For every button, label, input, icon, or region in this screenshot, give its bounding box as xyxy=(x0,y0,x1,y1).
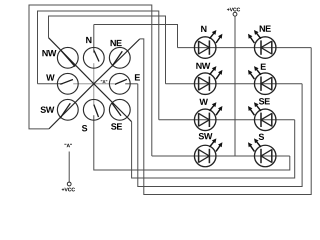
switch SE xyxy=(109,99,130,120)
node +VCC top terminal xyxy=(233,12,237,16)
wire: E switch out stub xyxy=(125,83,138,85)
label LED SW xyxy=(199,133,213,139)
wire: horizontal axis between W and E contacts xyxy=(73,83,114,85)
LED E xyxy=(248,66,276,94)
label switch SE xyxy=(111,123,122,129)
switch NE xyxy=(109,47,130,68)
wire: LED row 3 (W / SE) xyxy=(159,119,295,121)
switch W xyxy=(57,73,78,94)
label switch W xyxy=(46,74,54,80)
LED NE xyxy=(248,30,276,58)
wire: LED row 2 (NW / E) xyxy=(166,83,303,85)
label LED S xyxy=(259,134,264,140)
wire: SE diagonal from center through SE switch to exit xyxy=(94,84,132,122)
wire: SE switch drop, bottom loop, right riser to SE LED row xyxy=(132,120,295,178)
wire: +VCC rail vertical xyxy=(234,16,236,156)
wire: NW switch loop to NW LED row xyxy=(49,16,166,84)
LED NW xyxy=(194,66,222,94)
LED W xyxy=(194,102,222,130)
LED N xyxy=(194,30,222,58)
label LED W xyxy=(199,99,207,105)
node +VCC bottom terminal xyxy=(67,182,71,186)
label switch NW xyxy=(42,50,56,56)
label switch SW xyxy=(41,107,55,113)
label switch E xyxy=(135,74,140,80)
label LED N xyxy=(201,26,206,32)
switch S xyxy=(83,99,104,120)
label switch S xyxy=(82,125,87,131)
LED SW xyxy=(194,138,222,166)
wire: S switch drop to bottom loop and riser to S LED row xyxy=(94,115,290,170)
wire: N switch top stub from loop xyxy=(93,25,95,53)
wire: SW switch loop (outer top) to SW LED row xyxy=(29,5,152,156)
wire: E switch drop, bottom loop, right riser to E LED row xyxy=(138,84,302,187)
switch E xyxy=(109,73,130,94)
label LED E xyxy=(261,64,266,70)
label LED NE xyxy=(260,26,271,32)
label +VCC bottom xyxy=(62,188,75,192)
wire: LED row 4 (SW / S) xyxy=(152,155,290,157)
wire: vertical axis between N and S contacts xyxy=(93,63,95,104)
wire: node A to bottom +VCC terminal xyxy=(68,152,70,183)
label switch N xyxy=(86,37,91,43)
switch SW xyxy=(57,99,78,120)
wire: SW diagonal from center through SW switch to exit xyxy=(49,84,94,129)
switch NW xyxy=(57,47,78,68)
switch N xyxy=(83,47,104,68)
wire: N switch loop to N LED row xyxy=(94,25,178,48)
label LED SE xyxy=(259,98,270,104)
wire: W switch feed stub xyxy=(38,83,63,85)
wire: W switch loop to W LED row xyxy=(38,11,159,120)
LED SE xyxy=(248,102,276,130)
wire: NE diagonal from center through NE switch to exit xyxy=(94,39,140,84)
label +VCC top xyxy=(227,8,240,12)
wire: NE switch drop, bottom outer loop, right riser to NE LED row xyxy=(140,39,311,195)
label switch NE xyxy=(111,40,122,46)
wire: LED row 1 (N / NE) xyxy=(178,47,312,49)
node A bottom label xyxy=(65,144,72,147)
node A at cluster center xyxy=(101,80,107,83)
LED S xyxy=(248,138,276,166)
wire: NW diagonal from center through NW switch to feed xyxy=(49,38,94,84)
label LED NW xyxy=(196,63,210,69)
